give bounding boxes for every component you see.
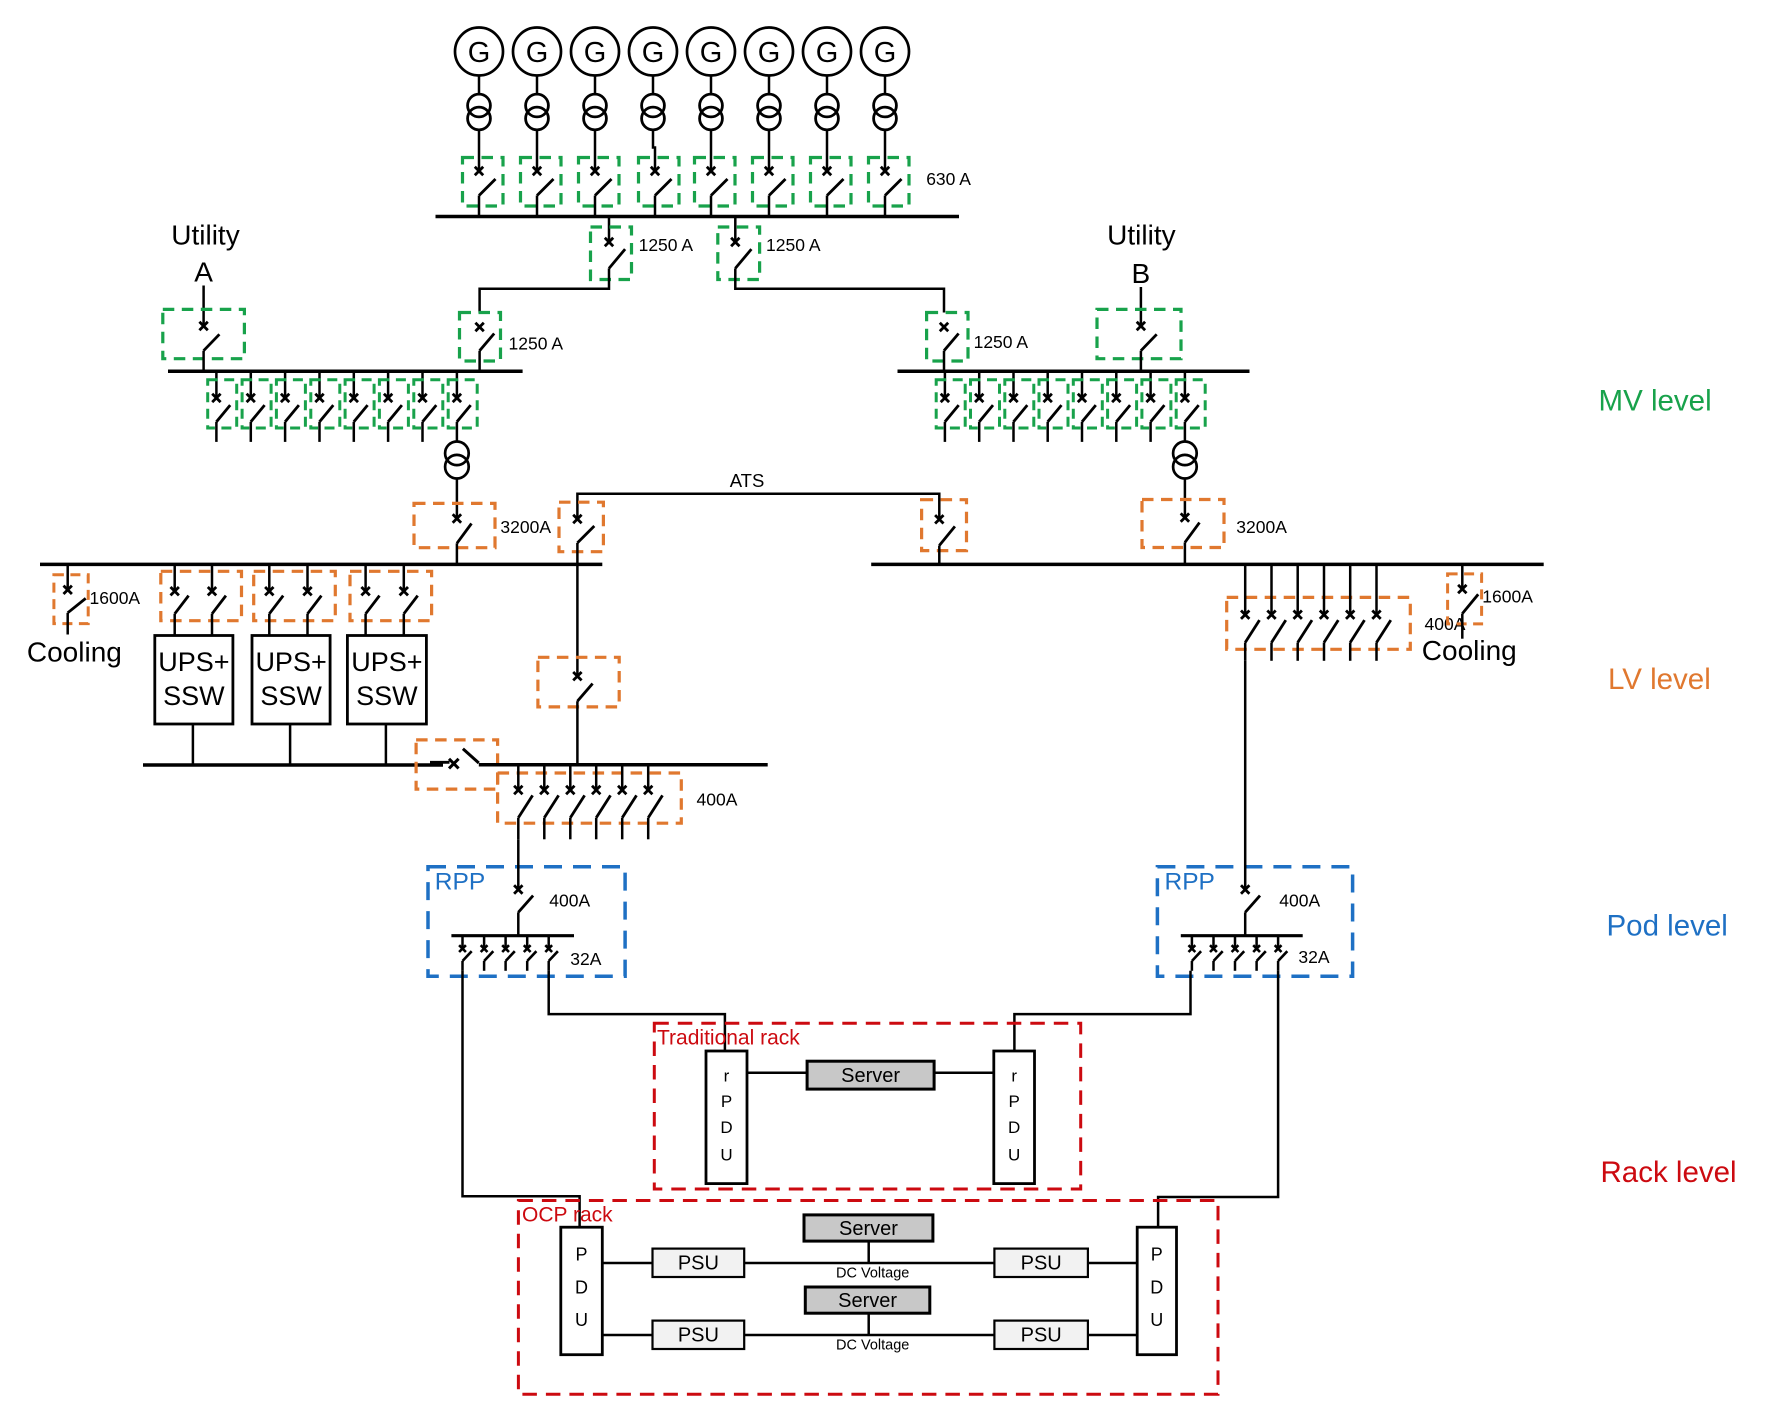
RPP right box (blue dashed) — [1157, 867, 1352, 977]
svg-text:1600A: 1600A — [1482, 586, 1533, 606]
svg-text:D: D — [1150, 1278, 1163, 1298]
breaker CB-G7 630A (green dashed) — [811, 158, 852, 207]
breaker CB-A5 (green dashed) — [345, 380, 374, 428]
transformer T1 — [468, 94, 491, 130]
transformer T4 — [642, 94, 665, 130]
svg-text:UPS+: UPS+ — [255, 647, 326, 677]
PSU bottom-right — [994, 1321, 1088, 1349]
svg-text:Rack level: Rack level — [1601, 1156, 1737, 1189]
wire transformer T3 to breaker — [594, 129, 597, 171]
server bottom (OCP) — [805, 1287, 930, 1313]
label Cooling right — [1422, 635, 1517, 666]
PSU bottom-left — [653, 1321, 745, 1349]
label 32A right — [1298, 947, 1329, 967]
wire LV bus A to breaker CB-U2a — [268, 564, 271, 591]
svg-text:PSU: PSU — [678, 1253, 719, 1275]
wire breaker CB-G5 to generator bus — [710, 196, 713, 217]
UPS+SSW unit 2 — [252, 636, 330, 725]
wire breaker CB-B3 tail — [1012, 422, 1015, 442]
breaker CB-UA (green dashed) — [163, 309, 245, 358]
breaker CB-LVA 3200A (orange dashed) — [414, 503, 495, 547]
wire generator G3 to transformer — [594, 76, 597, 95]
wire breaker CB-B5 tail — [1081, 422, 1084, 442]
wire CB-RPP-L to RPP left bus — [517, 912, 520, 935]
transformer T9 (MV/LV left) — [445, 442, 469, 479]
breaker CB-G4 630A (green dashed) — [639, 158, 680, 207]
breaker CB-G3 630A (green dashed) — [579, 158, 620, 207]
svg-text:MV level: MV level — [1599, 384, 1712, 417]
breaker CB-P4 — [592, 786, 611, 818]
breaker CB-Q1 — [1241, 611, 1260, 643]
transformer T7 — [816, 94, 839, 130]
wire CB-LVB to LV bus B — [1184, 542, 1187, 564]
wire LV bus A to breaker CB-U3b — [403, 564, 406, 591]
wire server to rPDU right — [934, 1071, 994, 1074]
wire LV bus A to breaker CB-CLA — [66, 564, 69, 589]
label 1250 A (CB-F2) — [766, 235, 821, 255]
svg-text:DC Voltage: DC Voltage — [836, 1266, 909, 1282]
svg-text:U: U — [1008, 1146, 1020, 1165]
wire RPP left bus to breaker CB-RL4 — [526, 936, 529, 949]
wire UPS1 to UPS output bus — [192, 724, 195, 765]
wire PSU top-right to PDU right — [1088, 1262, 1137, 1265]
svg-text:UPS+: UPS+ — [351, 647, 422, 677]
wire generator G4 to transformer — [652, 76, 655, 95]
wire PSU bottom-right to PDU right — [1088, 1334, 1137, 1337]
breaker CB-U3b — [400, 587, 418, 614]
wire CB-RR1 to traditional rack right rPDU — [1014, 971, 1190, 1051]
label RPP right — [1165, 869, 1215, 896]
svg-text:Pod level: Pod level — [1607, 909, 1728, 942]
breaker CB-A1 (green dashed) — [208, 380, 237, 428]
breaker CB-U2a — [265, 587, 283, 614]
wire breaker CB-B1 tail — [944, 422, 947, 442]
label 1600A right — [1482, 586, 1533, 606]
transformer T8 — [874, 94, 897, 130]
svg-text:P: P — [575, 1245, 587, 1265]
svg-text:3200A: 3200A — [500, 517, 551, 537]
label 630 A — [926, 169, 971, 189]
breaker CB-RR3 32A — [1232, 945, 1245, 961]
wire MV bus B to breaker CB-B3 — [1012, 371, 1015, 398]
wire panel bus to breaker CB-P6 — [647, 765, 650, 790]
label DC Voltage bottom — [836, 1338, 909, 1354]
breaker CB-P5 — [618, 786, 637, 818]
wire CB-MA to MV bus A — [478, 351, 481, 372]
generator G7 — [803, 28, 851, 76]
breaker CB-P2 — [540, 786, 559, 818]
svg-text:32A: 32A — [1298, 947, 1329, 967]
breaker CB-A2 (green dashed) — [242, 380, 271, 428]
breaker CB-LVB 3200A (orange dashed) — [1142, 500, 1224, 548]
breaker CB-Q2 — [1267, 611, 1286, 643]
MV bus B — [898, 370, 1250, 374]
wire breaker CB-RL1 tail — [461, 961, 464, 971]
svg-text:P: P — [1009, 1092, 1020, 1111]
RPP right bus — [1181, 934, 1303, 937]
label 32A left — [570, 949, 601, 969]
svg-text:ATS: ATS — [730, 470, 765, 491]
wire MV bus A to breaker CB-A2 — [250, 371, 253, 398]
breaker CB-RR4 32A — [1253, 945, 1266, 961]
wire breaker CB-A8 tail — [456, 422, 459, 442]
breaker CB-G1 630A (green dashed) — [463, 158, 504, 207]
LV bus A — [40, 563, 602, 567]
wire breaker CB-RL3 tail — [504, 961, 507, 971]
breaker CB-A4 (green dashed) — [311, 380, 340, 428]
label 400A RPP right — [1279, 891, 1320, 911]
wire breaker CB-P5 tail — [621, 818, 624, 840]
svg-text:G: G — [758, 37, 781, 69]
generator bus — [436, 215, 960, 219]
svg-text:r: r — [1011, 1067, 1017, 1086]
wire generator bus to breaker CB-F2 — [734, 217, 737, 243]
wire breaker CB-B8 tail — [1184, 422, 1187, 442]
breaker CB-B5 (green dashed) — [1073, 380, 1102, 428]
wire breaker CB-Q4 tail — [1323, 643, 1326, 661]
wire CB-RL1 to OCP rack left PDU — [463, 971, 580, 1227]
generator G1 — [455, 28, 503, 76]
svg-text:LV level: LV level — [1608, 663, 1711, 696]
wire breaker CB-RR2 tail — [1212, 961, 1215, 971]
label Cooling left — [27, 637, 122, 668]
wire breaker CB-P2 tail — [543, 818, 546, 840]
wire CB-P1 to RPP left main breaker — [517, 839, 520, 889]
svg-text:D: D — [575, 1278, 588, 1298]
wire RPP right bus to breaker CB-RR1 — [1191, 936, 1194, 949]
rPDU right — [994, 1051, 1035, 1184]
wire UPS3 to UPS output bus — [385, 724, 388, 765]
wire LV bus B to breaker CB-Q3 — [1296, 564, 1299, 614]
wire RPP left bus to breaker CB-RL5 — [547, 936, 550, 949]
wire MV bus B to breaker CB-B2 — [978, 371, 981, 398]
server top (OCP) — [804, 1215, 933, 1241]
transformer T10 (MV/LV right) — [1173, 442, 1197, 479]
breaker CB-G2 630A (green dashed) — [521, 158, 562, 207]
svg-text:D: D — [720, 1118, 732, 1137]
wire breaker CB-G7 to generator bus — [826, 196, 829, 217]
MV bus A — [168, 370, 523, 374]
wire MV bus A to breaker CB-A4 — [318, 371, 321, 398]
wire CB-U1a to UPS1 — [173, 614, 176, 636]
wire breaker CB-CLB tail — [1461, 614, 1464, 639]
wire breaker CB-G2 to generator bus — [536, 196, 539, 217]
wire LV bus A to breaker CB-U1b — [211, 564, 214, 591]
wire breaker CB-B4 tail — [1046, 422, 1049, 442]
wire CB-U3a to UPS3 — [364, 614, 367, 636]
svg-text:OCP rack: OCP rack — [522, 1204, 613, 1227]
svg-text:Utility: Utility — [171, 220, 239, 251]
wire LV bus B to breaker CB-CLB — [1461, 564, 1464, 589]
wire MV bus B to breaker CB-B8 — [1184, 371, 1187, 398]
wire utility A to breaker CB-UA — [202, 286, 205, 327]
wire RPP right bus to breaker CB-RR5 — [1277, 936, 1280, 949]
RPP left box (blue dashed) — [428, 867, 625, 977]
wire breaker CB-RL4 tail — [526, 961, 529, 971]
wire breaker CB-Q5 tail — [1349, 643, 1352, 661]
svg-text:U: U — [575, 1310, 588, 1330]
breaker CB-G5 630A (green dashed) — [695, 158, 736, 207]
label Utility B — [1107, 220, 1175, 289]
wire RPP left bus to breaker CB-RL1 — [461, 936, 464, 949]
wire breaker CB-RR1 tail — [1191, 961, 1194, 971]
breaker CB-Q3 — [1294, 611, 1313, 643]
svg-text:RPP: RPP — [1165, 869, 1215, 896]
breaker CB-RL5 32A — [545, 945, 558, 961]
wire LV bus A to breaker CB-U2b — [306, 564, 309, 591]
svg-text:1250 A: 1250 A — [766, 235, 821, 255]
wire breaker CB-G6 to generator bus — [768, 196, 771, 217]
wire breaker CB-B2 tail — [978, 422, 981, 442]
wire utility B to breaker CB-UB — [1140, 287, 1143, 326]
wire breaker CB-A6 tail — [387, 422, 390, 442]
breaker CB-RL4 32A — [524, 945, 537, 961]
wire CB-UA to MV bus A — [202, 351, 205, 372]
label 400A right group — [1425, 614, 1466, 634]
breaker CB-ATS-B (orange dashed) — [922, 500, 967, 551]
breaker CB-RR5 32A — [1275, 945, 1288, 961]
label Utility A — [171, 220, 239, 288]
wire breaker CB-A7 tail — [421, 422, 424, 442]
svg-text:1250 A: 1250 A — [639, 235, 694, 255]
wire RPP right bus to breaker CB-RR3 — [1234, 936, 1237, 949]
label 1250 A (CB-F1) — [639, 235, 694, 255]
wire LV bus A to breaker CB-C1 — [576, 564, 579, 676]
wire generator bus to breaker CB-F1 — [608, 217, 611, 243]
wire transformer T1 to breaker — [478, 129, 481, 171]
breaker CB-B3 (green dashed) — [1005, 380, 1034, 428]
ATS tie line — [577, 494, 939, 520]
wire breaker CB-RL2 tail — [483, 961, 486, 971]
wire panel bus to breaker CB-P2 — [543, 765, 546, 790]
wire CB-U1b to UPS1 — [211, 614, 214, 636]
wire LV bus B to breaker CB-Q6 — [1375, 564, 1378, 614]
UPS+SSW unit 3 — [347, 636, 426, 725]
svg-text:400A: 400A — [549, 891, 590, 911]
wire rPDU left to server — [747, 1071, 807, 1074]
breaker pair box UPS1 (orange dashed) — [161, 571, 242, 620]
LV bus B — [871, 563, 1543, 567]
wire MV bus B to breaker CB-B5 — [1081, 371, 1084, 398]
wire LV bus A to breaker CB-U1a — [173, 564, 176, 591]
label Traditional rack — [657, 1027, 800, 1050]
svg-text:G: G — [642, 37, 665, 69]
wire generator G2 to transformer — [536, 76, 539, 95]
label OCP rack — [522, 1204, 613, 1227]
svg-text:G: G — [816, 37, 839, 69]
wire breaker CB-RR5 tail — [1277, 961, 1280, 971]
wire CB-F1 to MV breaker CB-MA — [480, 268, 609, 312]
wire RPP left bus to breaker CB-RL2 — [483, 936, 486, 949]
generator G6 — [745, 28, 793, 76]
PDU right (OCP) — [1137, 1227, 1176, 1355]
wire breaker CB-G1 to generator bus — [478, 196, 481, 217]
breaker pair box UPS3 (orange dashed) — [350, 571, 432, 620]
wire panel bus to breaker CB-P5 — [621, 765, 624, 790]
breaker CB-A6 (green dashed) — [379, 380, 408, 428]
wire MV bus B to breaker CB-B6 — [1115, 371, 1118, 398]
breaker CB-U1a — [171, 587, 189, 614]
breaker CB-MA 1250A (green dashed) — [460, 313, 501, 362]
wire CB-Q1 to RPP right main breaker — [1244, 661, 1247, 890]
left 400A feeder group box (orange dashed) — [498, 773, 682, 823]
breaker CB-U1b — [208, 587, 226, 614]
wire CB-ATS-A to LV bus A — [576, 543, 579, 565]
breaker CB-A3 (green dashed) — [276, 380, 305, 428]
svg-text:SSW: SSW — [163, 681, 225, 711]
label 1600A left — [90, 588, 141, 608]
wire LV bus B to breaker CB-Q1 — [1244, 564, 1247, 614]
wire breaker CB-RL5 tail — [547, 961, 550, 971]
svg-text:1250 A: 1250 A — [509, 334, 564, 354]
wire UPS2 to UPS output bus — [289, 724, 292, 765]
wire generator G8 to transformer — [884, 76, 887, 95]
breaker CB-Q6 — [1372, 611, 1391, 643]
svg-text:P: P — [1151, 1245, 1163, 1265]
breaker CB-CLA 1600A (orange dashed) — [54, 575, 88, 624]
breaker CB-C1 (orange dashed) — [538, 657, 619, 707]
wire generator G5 to transformer — [710, 76, 713, 95]
Traditional rack box (red dashed) — [654, 1023, 1080, 1189]
breaker CB-B2 (green dashed) — [971, 380, 1000, 428]
wire CB-LVA to LV bus A — [456, 543, 459, 564]
right 400A feeder group box (orange dashed) — [1227, 597, 1411, 649]
wire transformer T7 to breaker — [826, 129, 829, 171]
breaker CB-ATS-A (orange dashed) — [559, 502, 603, 552]
svg-text:PSU: PSU — [1021, 1253, 1062, 1275]
breaker CB-RL1 32A — [459, 945, 472, 961]
svg-text:UPS+: UPS+ — [158, 647, 229, 677]
wire MV bus B to breaker CB-B4 — [1046, 371, 1049, 398]
wire breaker CB-RR4 tail — [1255, 961, 1258, 971]
wire breaker CB-Q3 tail — [1296, 643, 1299, 661]
svg-text:1600A: 1600A — [90, 588, 141, 608]
wire breaker CB-Q2 tail — [1270, 643, 1273, 661]
breaker CB-A7 (green dashed) — [414, 380, 443, 428]
breaker CB-RPP-L 400A — [514, 885, 533, 912]
breaker CB-A8 (green dashed) — [448, 380, 477, 428]
generator G4 — [629, 28, 677, 76]
wire breaker CB-G4 to generator bus — [654, 196, 657, 217]
breaker CB-MB 1250A (green dashed) — [927, 313, 968, 362]
transformer T3 — [584, 94, 607, 130]
svg-text:DC Voltage: DC Voltage — [836, 1338, 909, 1354]
svg-text:Cooling: Cooling — [27, 637, 122, 668]
label 1250 A (CB-MA) — [509, 334, 564, 354]
UPS output bus right segment — [479, 763, 768, 767]
wire MV bus A to breaker CB-A5 — [353, 371, 356, 398]
tie switch SW-TIE (orange dashed) — [416, 740, 498, 789]
wire breaker CB-P4 tail — [595, 818, 598, 840]
rPDU left — [706, 1051, 747, 1184]
wire MV bus A to breaker CB-A8 — [456, 371, 459, 398]
wire breaker CB-P3 tail — [569, 818, 572, 840]
wire breaker CB-B6 tail — [1115, 422, 1118, 442]
wire breaker CB-A1 tail — [215, 422, 218, 442]
breaker CB-G8 630A (green dashed) — [869, 158, 910, 207]
label 400A left group — [697, 789, 738, 809]
wire transformer T9 to breaker CB-LVA — [456, 478, 459, 519]
svg-text:G: G — [700, 37, 723, 69]
breaker CB-U3a — [361, 587, 379, 614]
label Pod level — [1607, 909, 1728, 942]
wire breaker CB-P1 tail — [517, 818, 520, 840]
wire MV bus A to breaker CB-A7 — [421, 371, 424, 398]
label 400A RPP left — [549, 891, 590, 911]
wire breaker CB-A5 tail — [353, 422, 356, 442]
svg-text:D: D — [1008, 1118, 1020, 1137]
generator G2 — [513, 28, 561, 76]
label MV level — [1599, 384, 1712, 417]
wire breaker CB-CLA tail — [66, 613, 69, 635]
breaker CB-RPP-R 400A — [1241, 885, 1260, 912]
generator G5 — [687, 28, 735, 76]
breaker CB-F2 1250A (green dashed) — [718, 227, 760, 280]
label LV level — [1608, 663, 1711, 696]
wire RPP left bus to breaker CB-RL3 — [504, 936, 507, 949]
svg-text:PSU: PSU — [1021, 1325, 1062, 1347]
breaker CB-P3 — [566, 786, 585, 818]
wire RPP right bus to breaker CB-RR2 — [1212, 936, 1215, 949]
breaker CB-RR1 32A — [1189, 945, 1202, 961]
wire panel bus to breaker CB-P1 — [517, 765, 520, 790]
wire breaker CB-A2 tail — [250, 422, 253, 442]
wire LV bus A to breaker CB-U3a — [364, 564, 367, 591]
server (traditional rack) — [807, 1061, 934, 1089]
label 1250 A (CB-MB) — [974, 332, 1029, 352]
svg-text:32A: 32A — [570, 949, 601, 969]
DC bus bottom — [744, 1334, 994, 1337]
wire breaker CB-A3 tail — [284, 422, 287, 442]
wire transformer T10 to breaker CB-LVB — [1184, 478, 1187, 518]
PDU left (OCP) — [561, 1227, 603, 1355]
breaker CB-Q4 — [1320, 611, 1339, 643]
svg-text:Server: Server — [838, 1290, 897, 1312]
svg-text:U: U — [1150, 1310, 1163, 1330]
wire panel bus to breaker CB-P4 — [595, 765, 598, 790]
breaker CB-P6 — [644, 786, 663, 818]
RPP left bus — [451, 934, 574, 937]
svg-text:G: G — [468, 37, 491, 69]
OCP rack box (red dashed) — [518, 1201, 1218, 1395]
breaker CB-RR2 32A — [1210, 945, 1223, 961]
wire CB-C1 to panel bus — [576, 701, 579, 765]
wire panel bus to breaker CB-P3 — [569, 765, 572, 790]
wire CB-U2b to UPS2 — [306, 614, 309, 636]
svg-text:1250 A: 1250 A — [974, 332, 1029, 352]
svg-text:630 A: 630 A — [926, 169, 971, 189]
svg-text:3200A: 3200A — [1236, 517, 1287, 537]
wire server top to DC bus — [867, 1241, 870, 1263]
wire breaker CB-Q1 tail — [1244, 643, 1247, 661]
svg-text:G: G — [874, 37, 897, 69]
svg-text:Utility: Utility — [1107, 220, 1175, 251]
wire generator G6 to transformer — [768, 76, 771, 95]
breaker CB-U2b — [303, 587, 321, 614]
wire LV bus B to breaker CB-Q4 — [1323, 564, 1326, 614]
transformer T6 — [758, 94, 781, 130]
breaker CB-B4 (green dashed) — [1039, 380, 1068, 428]
breaker CB-UB (green dashed) — [1097, 309, 1181, 358]
wire CB-RPP-R to RPP right bus — [1244, 912, 1247, 935]
wire breaker CB-G8 to generator bus — [884, 196, 887, 217]
svg-text:Traditional rack: Traditional rack — [657, 1027, 800, 1050]
wire transformer T8 to breaker — [884, 129, 887, 171]
wire generator G7 to transformer — [826, 76, 829, 95]
label Rack level — [1601, 1156, 1737, 1189]
transformer T5 — [700, 94, 723, 130]
wire MV bus A to breaker CB-A6 — [387, 371, 390, 398]
